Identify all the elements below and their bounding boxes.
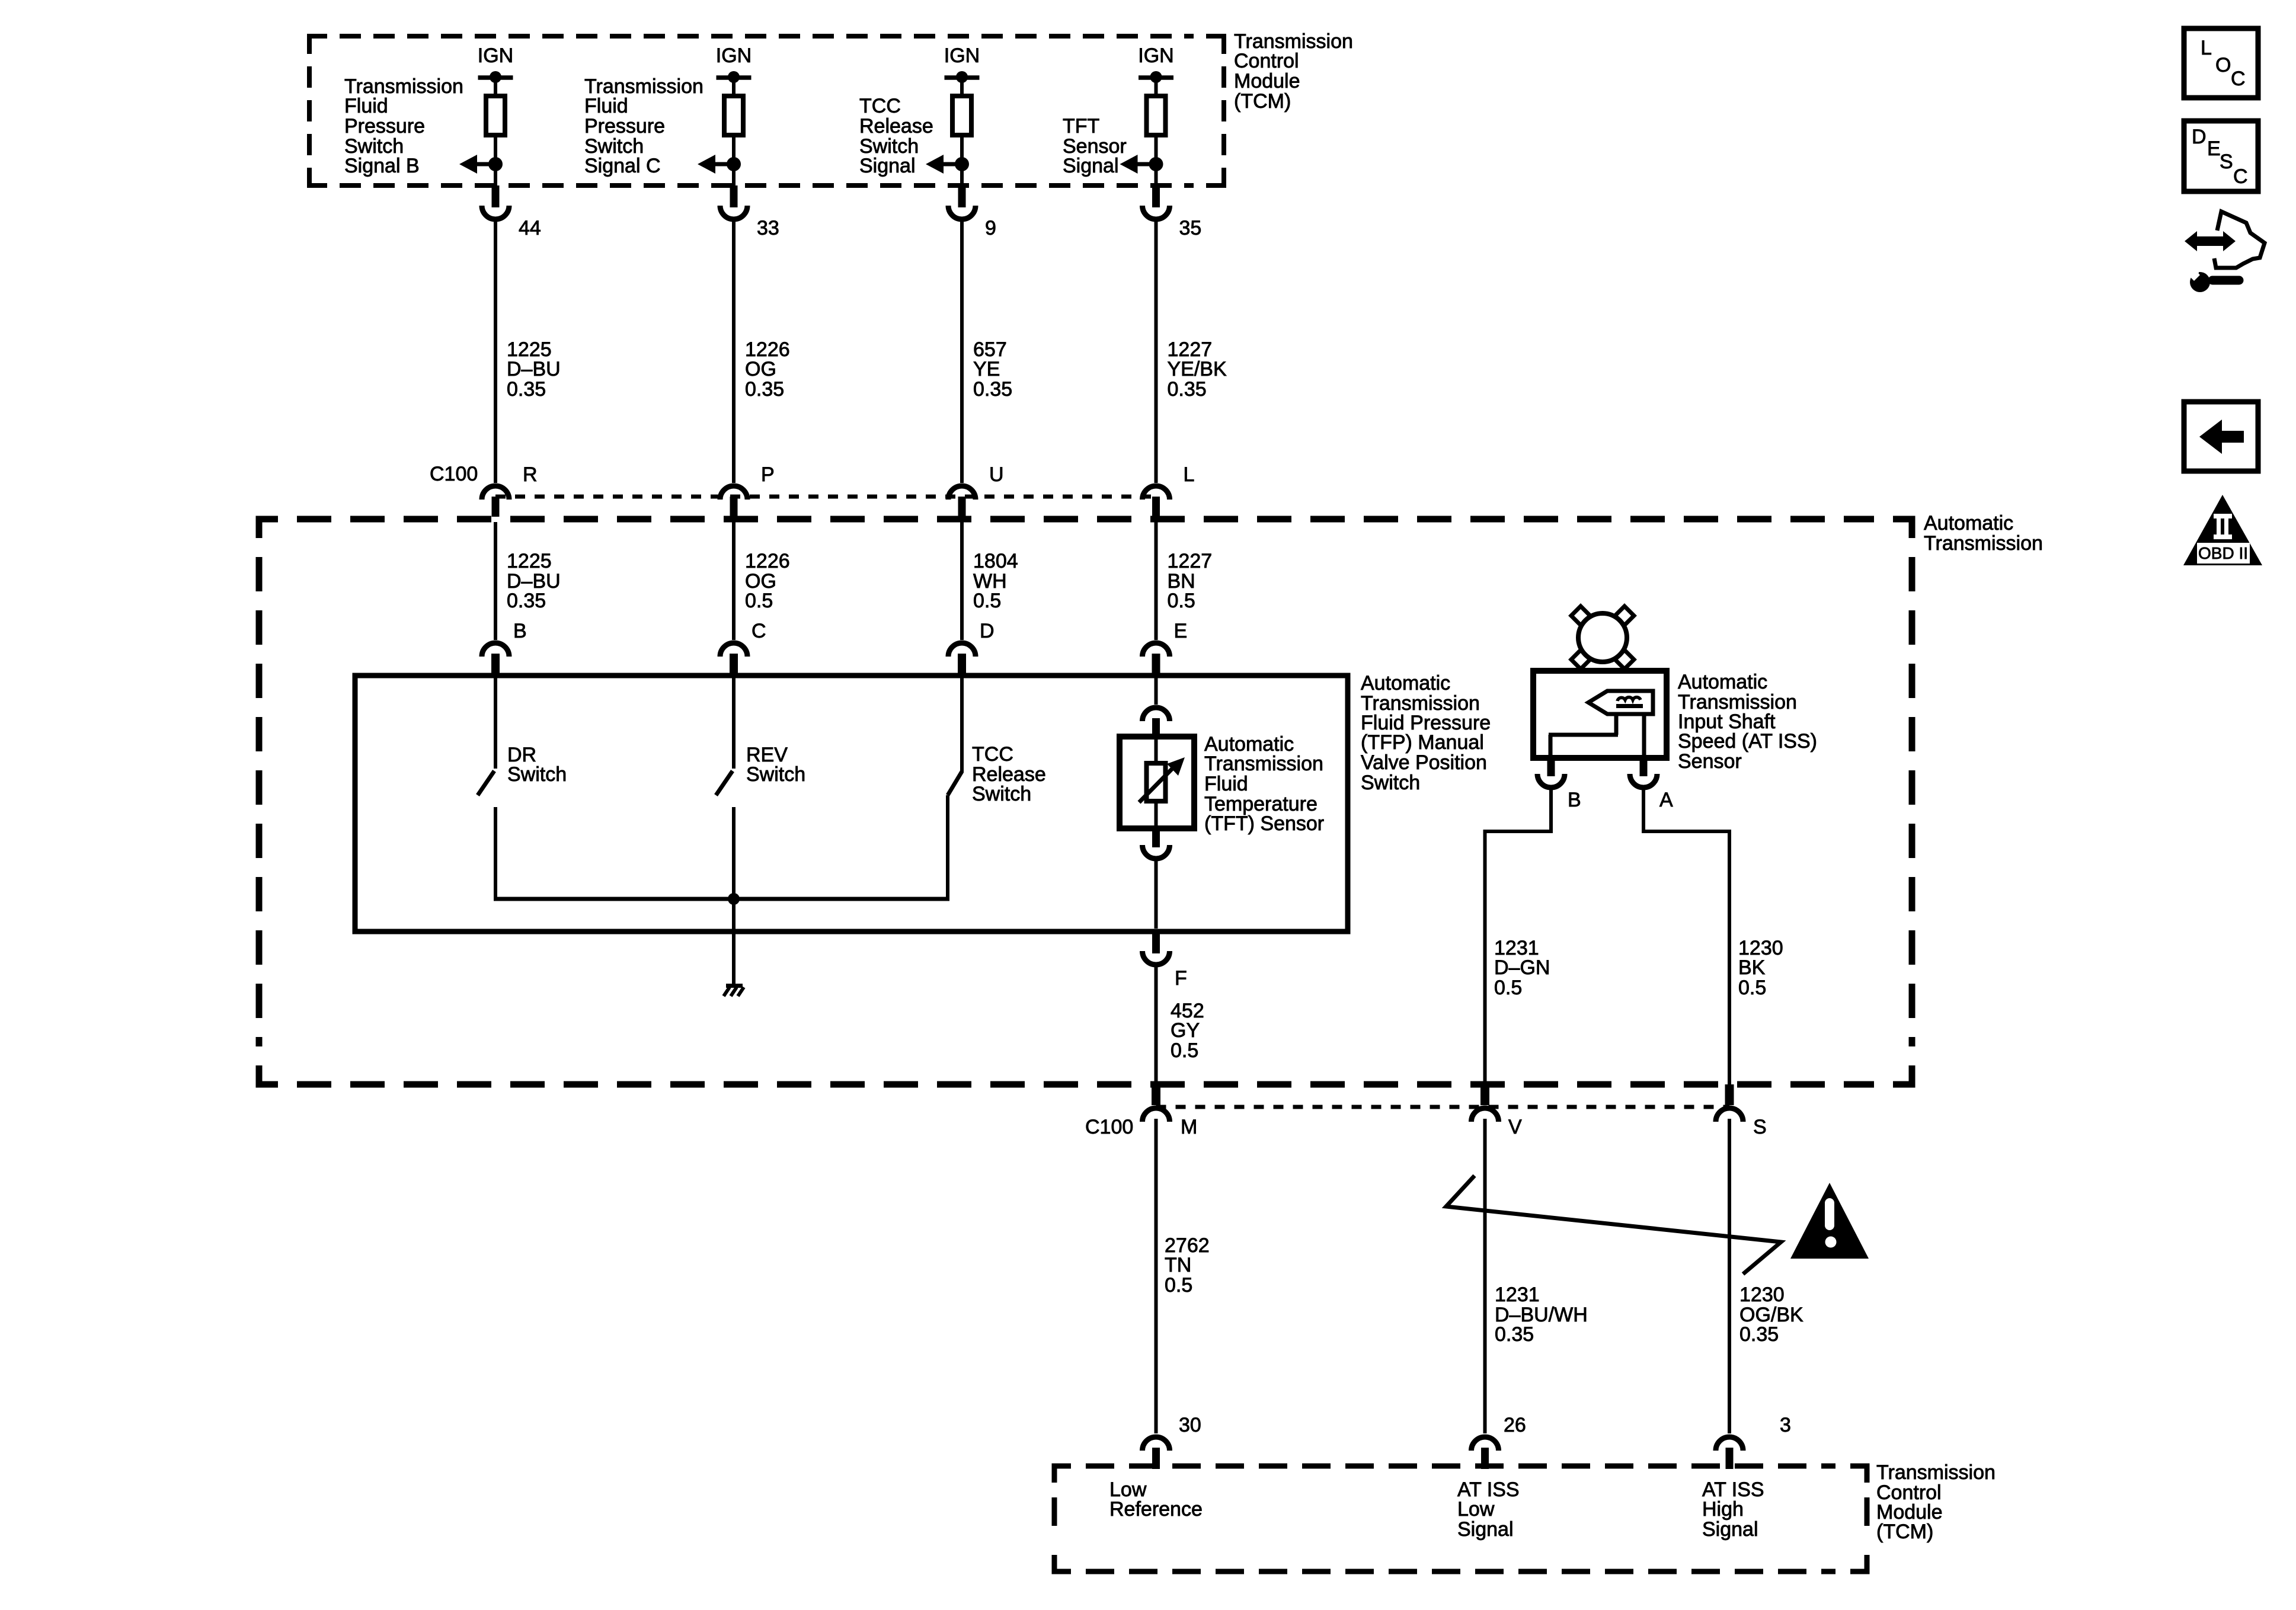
svg-text:(TFP) Manual: (TFP) Manual (1361, 731, 1484, 754)
svg-text:IGN: IGN (1138, 44, 1173, 67)
svg-text:Module: Module (1234, 70, 1300, 92)
svg-text:Sensor: Sensor (1678, 750, 1742, 773)
svg-text:Switch: Switch (746, 763, 805, 786)
svg-text:A: A (1659, 789, 1673, 811)
svg-text:High: High (1702, 1498, 1744, 1521)
svg-text:BK: BK (1738, 956, 1766, 979)
svg-text:S: S (1753, 1116, 1767, 1138)
svg-text:Release: Release (859, 115, 933, 137)
svg-text:IGN: IGN (478, 44, 513, 67)
svg-text:Pressure: Pressure (344, 115, 425, 137)
svg-text:33: 33 (757, 217, 779, 239)
svg-text:0.5: 0.5 (973, 590, 1001, 612)
svg-text:Signal C: Signal C (584, 155, 661, 177)
svg-text:3: 3 (1780, 1414, 1791, 1436)
svg-text:9: 9 (985, 217, 996, 239)
svg-text:F: F (1175, 967, 1187, 990)
svg-text:0.5: 0.5 (1494, 977, 1522, 999)
svg-text:1804: 1804 (973, 550, 1018, 572)
svg-text:M: M (1181, 1116, 1197, 1138)
svg-text:Signal: Signal (1063, 155, 1119, 177)
svg-text:L: L (2201, 37, 2212, 59)
svg-text:0.5: 0.5 (1168, 590, 1195, 612)
svg-text:D: D (2192, 126, 2207, 148)
svg-text:Signal B: Signal B (344, 155, 420, 177)
svg-text:TCC: TCC (972, 743, 1013, 766)
svg-text:D–GN: D–GN (1494, 956, 1550, 979)
svg-text:GY: GY (1171, 1019, 1200, 1042)
svg-text:R: R (523, 463, 538, 486)
svg-text:0.35: 0.35 (1739, 1323, 1779, 1346)
svg-text:Transmission: Transmission (1876, 1461, 1996, 1484)
svg-text:Pressure: Pressure (584, 115, 665, 137)
svg-text:1225: 1225 (507, 550, 552, 572)
svg-text:C: C (2233, 165, 2248, 188)
svg-text:1226: 1226 (745, 550, 790, 572)
svg-text:C: C (2231, 68, 2246, 90)
svg-text:Low: Low (1457, 1498, 1495, 1521)
svg-text:S: S (2220, 151, 2233, 173)
svg-text:0.35: 0.35 (745, 378, 784, 401)
svg-text:0.5: 0.5 (1738, 977, 1766, 999)
svg-text:E: E (1174, 620, 1188, 642)
svg-text:D: D (980, 620, 994, 642)
svg-text:0.5: 0.5 (745, 590, 773, 612)
svg-text:1227: 1227 (1168, 550, 1213, 572)
svg-text:Fluid: Fluid (584, 95, 628, 117)
svg-text:Speed (AT ISS): Speed (AT ISS) (1678, 730, 1817, 753)
svg-text:1231: 1231 (1495, 1283, 1540, 1306)
svg-text:O: O (2215, 54, 2231, 76)
svg-text:IGN: IGN (716, 44, 752, 67)
svg-text:(TFT) Sensor: (TFT) Sensor (1204, 812, 1324, 835)
svg-text:TFT: TFT (1063, 115, 1099, 137)
svg-text:Transmission: Transmission (1204, 753, 1323, 775)
svg-text:C100: C100 (430, 463, 478, 485)
svg-text:0.35: 0.35 (507, 378, 546, 401)
svg-text:Switch: Switch (1361, 772, 1420, 794)
svg-text:L: L (1184, 463, 1195, 486)
svg-text:Automatic: Automatic (1678, 671, 1767, 693)
svg-text:Reference: Reference (1109, 1498, 1203, 1521)
svg-text:E: E (2207, 137, 2221, 160)
svg-text:YE/BK: YE/BK (1168, 358, 1227, 380)
svg-text:Signal: Signal (1702, 1518, 1758, 1541)
svg-text:Control: Control (1234, 50, 1299, 72)
svg-text:U: U (989, 463, 1004, 486)
svg-text:44: 44 (519, 217, 541, 239)
svg-text:Signal: Signal (859, 155, 916, 177)
svg-text:26: 26 (1504, 1414, 1526, 1436)
svg-text:OBD II: OBD II (2198, 544, 2248, 562)
svg-text:(TCM): (TCM) (1876, 1521, 1933, 1543)
svg-text:TCC: TCC (859, 95, 901, 117)
svg-text:0.35: 0.35 (1168, 378, 1207, 401)
svg-text:IGN: IGN (944, 44, 980, 67)
svg-text:P: P (761, 463, 775, 486)
svg-text:B: B (1568, 789, 1581, 811)
svg-text:0.5: 0.5 (1171, 1039, 1198, 1062)
svg-text:0.5: 0.5 (1165, 1274, 1192, 1297)
svg-text:0.35: 0.35 (1495, 1323, 1534, 1346)
svg-text:0.35: 0.35 (973, 378, 1012, 401)
svg-text:Automatic: Automatic (1924, 512, 2013, 534)
svg-text:35: 35 (1179, 217, 1202, 239)
svg-text:C100: C100 (1085, 1116, 1133, 1138)
svg-text:Automatic: Automatic (1361, 672, 1450, 694)
svg-text:C: C (752, 620, 766, 642)
svg-text:Transmission: Transmission (1924, 532, 2043, 555)
svg-text:30: 30 (1179, 1414, 1201, 1436)
svg-text:B: B (513, 620, 527, 642)
svg-text:(TCM): (TCM) (1234, 90, 1291, 113)
svg-text:Signal: Signal (1457, 1518, 1514, 1541)
svg-text:Valve Position: Valve Position (1361, 751, 1487, 774)
svg-text:OG: OG (745, 358, 776, 380)
svg-text:Fluid: Fluid (1204, 773, 1248, 795)
svg-text:1230: 1230 (1739, 1283, 1785, 1306)
svg-text:D–BU: D–BU (507, 358, 561, 380)
svg-text:0.35: 0.35 (507, 590, 546, 612)
svg-text:Switch: Switch (507, 763, 567, 786)
svg-text:YE: YE (973, 358, 1000, 380)
svg-text:Fluid: Fluid (344, 95, 388, 117)
svg-text:V: V (1508, 1116, 1522, 1138)
svg-text:Switch: Switch (972, 783, 1031, 805)
svg-text:TN: TN (1165, 1254, 1191, 1276)
